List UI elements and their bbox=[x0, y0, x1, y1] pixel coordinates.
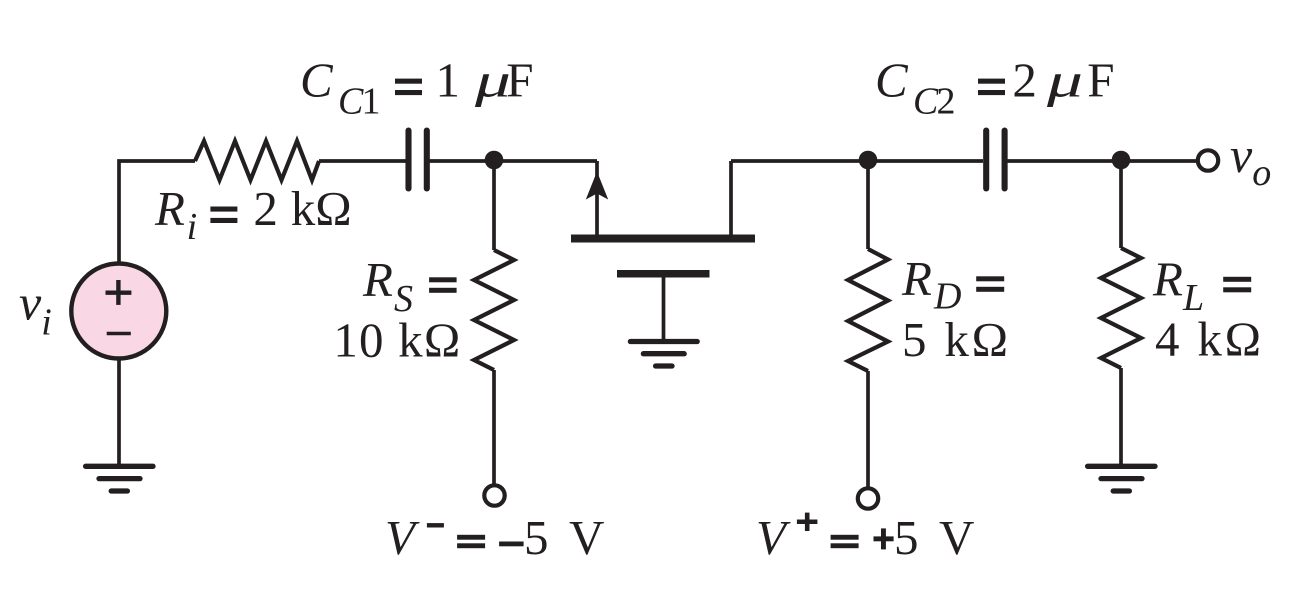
svg-text:Ri2kΩ: Ri2kΩ bbox=[154, 181, 352, 248]
wire node A down to resistor RS bbox=[492, 161, 496, 250]
svg-text:vo: vo bbox=[1230, 127, 1271, 194]
svg-text:4 kΩ: 4 kΩ bbox=[1155, 312, 1264, 367]
wire resistor RL to ground bbox=[1119, 368, 1123, 465]
capacitor CC2 plates bbox=[986, 131, 1004, 189]
transistor Q1 gate wire to ground bbox=[662, 278, 666, 341]
resistor RS (zigzag) bbox=[474, 250, 514, 370]
label RS = bbox=[362, 252, 457, 320]
svg-text:vi: vi bbox=[19, 275, 52, 344]
wire capacitor CC1 to node A and to transistor source bbox=[430, 159, 598, 163]
terminal vo (open circle) bbox=[1198, 150, 1218, 170]
label CC1 = 1 uF bbox=[300, 53, 534, 123]
node C (junction dot) bbox=[1112, 151, 1131, 170]
wire resistor RS to V- terminal bbox=[492, 370, 496, 484]
voltage source minus sign bbox=[107, 332, 131, 336]
wire source vi to ground bbox=[117, 359, 121, 465]
transistor Q1 drain lead bbox=[729, 161, 733, 235]
ground (gate) bbox=[630, 342, 697, 367]
transistor Q1 channel bar bbox=[571, 235, 755, 243]
wire node B to capacitor CC2 bbox=[868, 159, 983, 163]
transistor Q1 source lead bbox=[595, 161, 599, 235]
label Ri = 2 kOhm bbox=[154, 181, 352, 248]
label CC2 = 2 uF bbox=[875, 53, 1115, 123]
svg-text:RS: RS bbox=[362, 252, 413, 320]
svg-text:5 kΩ: 5 kΩ bbox=[902, 312, 1011, 367]
label RD = bbox=[901, 251, 1004, 318]
ground (RL) bbox=[1088, 466, 1155, 491]
wire node B down to resistor RD bbox=[866, 161, 870, 249]
transistor Q1 gate bar bbox=[617, 270, 710, 278]
capacitor CC1 plates bbox=[409, 131, 427, 189]
wire transistor drain to node B bbox=[731, 159, 868, 163]
terminal V+ (open circle) bbox=[858, 488, 878, 508]
voltage source vi (circle) bbox=[71, 264, 166, 359]
label V- = -5 V bbox=[385, 510, 604, 565]
wire node C down to resistor RL bbox=[1119, 161, 1123, 248]
wire from source vi up to top rail bbox=[119, 161, 195, 263]
ground (source vi) bbox=[86, 466, 153, 491]
wire node C to output terminal bbox=[1121, 159, 1197, 163]
terminal V- (open circle) bbox=[484, 485, 504, 505]
svg-text:RD: RD bbox=[901, 251, 961, 318]
svg-text:V5V: V5V bbox=[385, 510, 604, 565]
resistor Ri (zigzag) bbox=[195, 141, 319, 180]
node A (junction dot) bbox=[485, 151, 504, 170]
resistor RL (zigzag) bbox=[1101, 248, 1141, 368]
svg-text:CC11μF: CC11μF bbox=[300, 53, 534, 123]
svg-text:RL: RL bbox=[1152, 252, 1204, 320]
voltage source plus sign bbox=[106, 280, 132, 305]
wire resistor RD to V+ terminal bbox=[866, 371, 870, 488]
resistor RD (zigzag) bbox=[848, 249, 888, 371]
wire resistor Ri to capacitor CC1 bbox=[319, 159, 406, 163]
svg-text:V5V: V5V bbox=[756, 510, 974, 565]
svg-text:10 kΩ: 10 kΩ bbox=[333, 313, 461, 368]
wire capacitor CC2 to node C bbox=[1007, 159, 1121, 163]
transistor Q1 source arrow bbox=[586, 172, 608, 200]
label V+ = +5 V bbox=[756, 510, 974, 565]
svg-text:CC22μF: CC22μF bbox=[875, 53, 1115, 123]
label RL = bbox=[1152, 252, 1251, 320]
node B (junction dot) bbox=[859, 151, 878, 170]
